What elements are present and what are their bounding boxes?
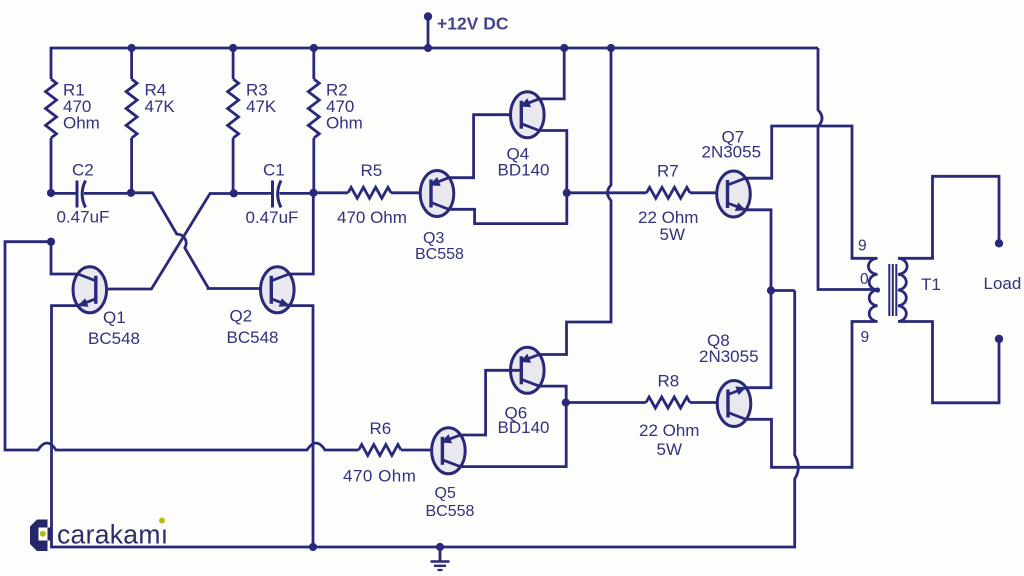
wire Q2 base cross-coupling with hop (131, 193, 272, 289)
svg-text:0.47uF: 0.47uF (57, 208, 110, 227)
svg-text:0.47uF: 0.47uF (246, 208, 299, 227)
wire +12V feed (427, 17, 430, 49)
transistor Q7 (717, 171, 751, 217)
transistor Q3 (420, 171, 454, 217)
svg-text:Q3: Q3 (423, 230, 444, 247)
svg-text:BC558: BC558 (415, 246, 464, 263)
wire Q8 emitter (746, 291, 771, 388)
wire C2 right (84, 192, 131, 195)
node center tap (875, 287, 880, 292)
wire R8 left (566, 401, 646, 404)
wire Q2 collector (289, 193, 313, 274)
capacitor C2 (76, 181, 79, 208)
capacitor C1 (271, 181, 274, 208)
wire R7 left (567, 191, 647, 194)
wire Q6 base to Q5 emitter (460, 370, 521, 435)
svg-text:2N3055: 2N3055 (702, 143, 762, 162)
node ground junction (436, 543, 444, 551)
wire Q3 emitter to Q4 base (449, 115, 522, 178)
svg-text:Load: Load (984, 274, 1022, 293)
wire Q6 collector (539, 386, 566, 402)
svg-text:9: 9 (858, 238, 867, 255)
transistor Q4 (511, 92, 545, 138)
svg-text:Ohm: Ohm (63, 114, 100, 133)
ground symbol (439, 547, 442, 561)
svg-text:Q5: Q5 (435, 485, 456, 502)
node driver2 output (562, 398, 570, 406)
logo carakami icon (30, 520, 52, 552)
svg-text:R5: R5 (361, 161, 383, 180)
wire R1 bottom (50, 138, 53, 193)
wire Q7 collector to transformer top (745, 126, 852, 257)
svg-text:9: 9 (861, 329, 870, 346)
wire R6 feed (5, 242, 359, 450)
svg-text:47K: 47K (246, 97, 277, 116)
transformer T1 primary winding (852, 256, 878, 324)
transistor Q1 (73, 267, 107, 313)
svg-text:470 Ohm: 470 Ohm (337, 208, 407, 227)
wire Q5 collector (460, 403, 566, 467)
svg-text:T1: T1 (921, 275, 941, 294)
node C1-R2 (309, 189, 317, 197)
wire secondary top to load (933, 176, 1000, 257)
svg-text:470 Ohm: 470 Ohm (343, 467, 416, 486)
svg-text:C1: C1 (263, 161, 285, 180)
wire Q1 emitter to ground rail / bottom rail (52, 291, 799, 548)
transistor Q2 (261, 267, 295, 313)
transistor Q8 (717, 381, 751, 427)
node driver1 output (563, 189, 571, 197)
wire C1 right (280, 192, 314, 195)
wire Q4 collector (539, 131, 567, 193)
node Q1c-R6branch (47, 238, 55, 246)
svg-text:R6: R6 (370, 419, 392, 438)
svg-text:carakamı: carakamı (57, 519, 168, 549)
node rail-Q6e (607, 44, 615, 52)
wire Q1 collector (51, 242, 78, 274)
node rail-R3 (229, 44, 237, 52)
wire R6 to Q5 base (401, 449, 442, 452)
node rail-supply (424, 44, 432, 52)
wire Q2 emitter (289, 306, 313, 547)
node rail-Q4e (560, 44, 568, 52)
svg-text:Q2: Q2 (230, 307, 253, 326)
svg-text:Ohm: Ohm (326, 114, 363, 133)
svg-text:22 Ohm: 22 Ohm (639, 421, 699, 440)
svg-text:+12V DC: +12V DC (437, 14, 509, 34)
load terminal top (995, 239, 1003, 247)
resistor R4 (126, 48, 137, 193)
wire Q4 emitter to rail (539, 48, 564, 99)
wire Q3 collector (449, 193, 567, 224)
svg-text:0: 0 (860, 271, 869, 288)
resistor R7 (647, 187, 690, 198)
wire C1 left (234, 192, 273, 195)
node C1-R3 (230, 189, 238, 197)
svg-text:BD140: BD140 (498, 418, 550, 437)
wire Q8 collector to transformer bottom (746, 322, 852, 468)
resistor R1 (46, 79, 57, 138)
node rail-R4 (128, 44, 136, 52)
svg-text:Q1: Q1 (103, 308, 126, 327)
resistor R6 (359, 445, 401, 456)
wire Q6 emitter feed with hop (539, 48, 611, 355)
transformer T1 secondary winding (898, 256, 933, 324)
svg-text:2N3055: 2N3055 (699, 347, 759, 366)
wire C2 left (51, 192, 77, 195)
wire secondary bottom to load (933, 324, 1000, 403)
resistor R2 (308, 48, 319, 193)
svg-text:BC548: BC548 (227, 328, 279, 347)
wire R8 to Q8 base (690, 401, 729, 404)
wire top +12V rail (51, 48, 818, 79)
svg-text:R7: R7 (657, 162, 679, 181)
node emitters junction (767, 286, 775, 294)
transistor Q5 (432, 428, 466, 474)
transformer T1 core (888, 264, 890, 316)
svg-text:BC558: BC558 (426, 503, 475, 520)
svg-text:BC548: BC548 (88, 329, 140, 348)
svg-text:R8: R8 (658, 372, 680, 391)
svg-text:5W: 5W (657, 440, 683, 459)
power net +12V supply terminal (424, 12, 432, 20)
resistor R5 (314, 187, 432, 198)
wire Q1 base cross-coupling (96, 194, 234, 290)
node Q1c-C2 (47, 189, 55, 197)
transistor Q6 (511, 347, 545, 393)
svg-text:47K: 47K (145, 97, 176, 116)
svg-text:C2: C2 (72, 161, 94, 180)
svg-text:5W: 5W (660, 225, 686, 244)
load terminal bottom (995, 335, 1003, 343)
node C2-R4 (127, 189, 135, 197)
resistor R8 (646, 397, 690, 408)
wire emitters to ground branch (771, 289, 795, 292)
wire rail to center tap with hop (818, 48, 878, 290)
svg-text:BD140: BD140 (498, 161, 550, 180)
node Q2e-bottomrail (309, 543, 317, 551)
wire R7 to Q7 base (690, 191, 728, 194)
resistor R3 (228, 48, 239, 193)
wire Q7 emitter (745, 210, 771, 291)
node rail-R2 (310, 44, 318, 52)
